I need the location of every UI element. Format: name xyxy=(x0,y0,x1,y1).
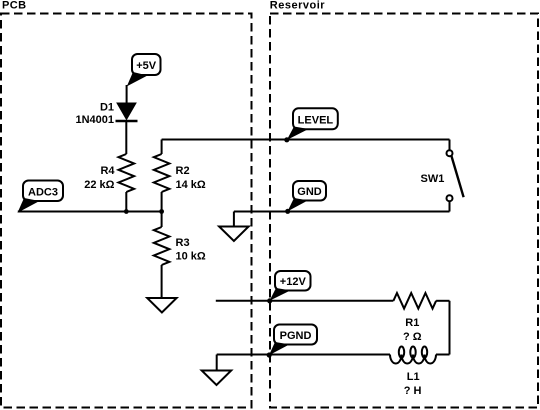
svg-text:Reservoir: Reservoir xyxy=(270,0,325,12)
svg-text:R1: R1 xyxy=(405,317,419,329)
diode D1 1N4001 xyxy=(75,102,137,127)
wire D1 to R4 xyxy=(125,121,127,154)
wire R2 to node xyxy=(161,192,163,212)
svg-text:14 kΩ: 14 kΩ xyxy=(176,179,206,191)
svg-text:LEVEL: LEVEL xyxy=(298,114,334,126)
wire +5V to D1 xyxy=(126,85,128,104)
net flag LEVEL xyxy=(284,108,338,142)
svg-text:R3: R3 xyxy=(176,237,190,249)
svg-text:+5V: +5V xyxy=(136,60,157,72)
wire GND xyxy=(234,211,450,213)
wire R3 to ground xyxy=(161,265,163,298)
ground below R3 xyxy=(147,298,176,313)
svg-text:R4: R4 xyxy=(100,165,115,177)
wire R1 right xyxy=(436,300,449,302)
svg-text:GND: GND xyxy=(297,186,322,198)
wire LEVEL xyxy=(162,139,450,141)
resistor R1 xyxy=(393,293,436,343)
svg-text:22 kΩ: 22 kΩ xyxy=(84,179,114,191)
wire GND drop xyxy=(233,212,235,227)
net flag GND xyxy=(285,181,326,214)
resistor R4 22k xyxy=(84,154,134,192)
wire ADC3 node xyxy=(18,211,162,213)
svg-text:SW1: SW1 xyxy=(421,173,445,185)
svg-text:10 kΩ: 10 kΩ xyxy=(176,251,206,263)
junction A xyxy=(124,209,129,214)
resistor R2 14k xyxy=(154,154,206,192)
power flag +12V xyxy=(267,271,310,303)
svg-text:? Ω: ? Ω xyxy=(403,331,422,343)
resistor R3 10k xyxy=(154,227,206,265)
junction B xyxy=(159,209,164,214)
PCB boundary xyxy=(1,14,252,408)
wire +12V xyxy=(216,300,394,302)
net flag ADC3 xyxy=(18,181,64,213)
wire right vertical xyxy=(449,301,451,355)
power flag +5V xyxy=(127,54,161,86)
wire L1 right xyxy=(436,354,450,356)
svg-text:R2: R2 xyxy=(176,165,190,177)
net flag PGND xyxy=(267,325,317,358)
wire PGND drop xyxy=(216,355,218,371)
wire R2 top xyxy=(161,140,163,155)
Reservoir boundary xyxy=(270,14,538,408)
inductor L1 xyxy=(390,347,436,398)
wire node to R3 xyxy=(161,212,163,228)
wire PGND xyxy=(217,354,390,356)
svg-text:D1: D1 xyxy=(100,102,114,114)
svg-text:PGND: PGND xyxy=(280,330,312,342)
svg-text:L1: L1 xyxy=(407,371,420,383)
ground GND pcb xyxy=(219,227,249,242)
svg-text:PCB: PCB xyxy=(2,0,26,12)
wire R4 to node xyxy=(125,192,127,212)
svg-text:ADC3: ADC3 xyxy=(28,187,58,199)
svg-text:1N4001: 1N4001 xyxy=(75,114,114,126)
ground PGND xyxy=(202,371,232,386)
svg-text:+12V: +12V xyxy=(280,276,307,288)
switch SW1 xyxy=(421,140,464,212)
svg-text:? H: ? H xyxy=(404,385,422,397)
